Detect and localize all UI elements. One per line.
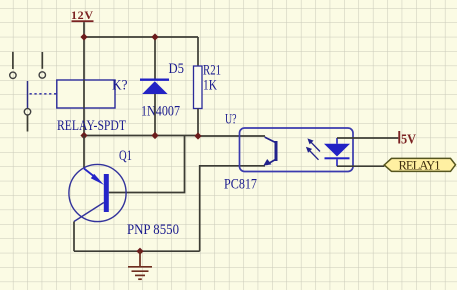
wire top 12V rail bbox=[84, 36, 198, 38]
LED emitter bbox=[324, 138, 350, 166]
svg-text:U?: U? bbox=[225, 112, 237, 128]
switch pole (common) bbox=[24, 81, 30, 132]
svg-text:1K: 1K bbox=[203, 78, 217, 94]
dashed actuator link bbox=[30, 93, 57, 95]
power port 5V bbox=[398, 131, 416, 148]
svg-text:K?: K? bbox=[112, 78, 128, 94]
svg-text:RELAY-SPDT: RELAY-SPDT bbox=[57, 118, 126, 134]
diode D5 bbox=[140, 61, 184, 120]
light arrow 2 bbox=[306, 147, 319, 160]
wire base riser bbox=[109, 136, 185, 193]
junction mid rail / diode anode bbox=[151, 132, 158, 139]
svg-text:R21: R21 bbox=[203, 63, 221, 79]
svg-text:Q1: Q1 bbox=[119, 148, 132, 164]
svg-text:PC817: PC817 bbox=[224, 177, 257, 193]
svg-text:RELAY1: RELAY1 bbox=[399, 159, 441, 173]
junction mid rail / coil bottom bbox=[80, 132, 87, 139]
svg-text:PNP 8550: PNP 8550 bbox=[127, 222, 179, 238]
svg-text:1N4007: 1N4007 bbox=[141, 104, 180, 120]
svg-text:5V: 5V bbox=[401, 133, 416, 148]
switch contact terminal 1 bbox=[10, 52, 16, 79]
svg-text:12V: 12V bbox=[71, 8, 93, 22]
wire relay coil feed bbox=[83, 37, 85, 136]
wire R21 bottom drop bbox=[197, 109, 199, 137]
wire opto emitter return bbox=[200, 166, 265, 251]
wire bottom rail bbox=[74, 250, 200, 252]
junction ground tap bbox=[136, 248, 143, 255]
wire diode anode drop bbox=[154, 94, 156, 136]
wire D5 cathode drop bbox=[154, 37, 156, 79]
resistor R21 bbox=[194, 63, 222, 109]
light arrow 1 bbox=[307, 138, 320, 151]
phototransistor bbox=[263, 137, 277, 166]
wire R21 top drop bbox=[197, 37, 199, 66]
power port 12V bbox=[71, 8, 94, 22]
wire opto cathode to port bbox=[337, 165, 384, 167]
junction at 12V rail / diode bbox=[151, 33, 158, 40]
ground bbox=[128, 251, 152, 279]
wire emitter riser bbox=[83, 136, 85, 169]
port RELAY1 bbox=[384, 158, 455, 172]
optocoupler U1 PC817 bbox=[224, 112, 353, 193]
wire collector riser bbox=[73, 222, 75, 252]
wire mid rail bbox=[84, 135, 265, 138]
transistor Q1 PNP bbox=[69, 148, 179, 238]
switch contact terminal 2 bbox=[39, 52, 45, 78]
wire opto anode to 5V bbox=[337, 137, 398, 139]
junction at 12V rail / coil bbox=[80, 33, 87, 40]
wire 12V stub bbox=[83, 22, 85, 37]
relay K? RELAY-SPDT bbox=[57, 78, 128, 135]
junction mid rail / R21 bbox=[194, 132, 201, 139]
svg-text:D5: D5 bbox=[169, 61, 185, 77]
